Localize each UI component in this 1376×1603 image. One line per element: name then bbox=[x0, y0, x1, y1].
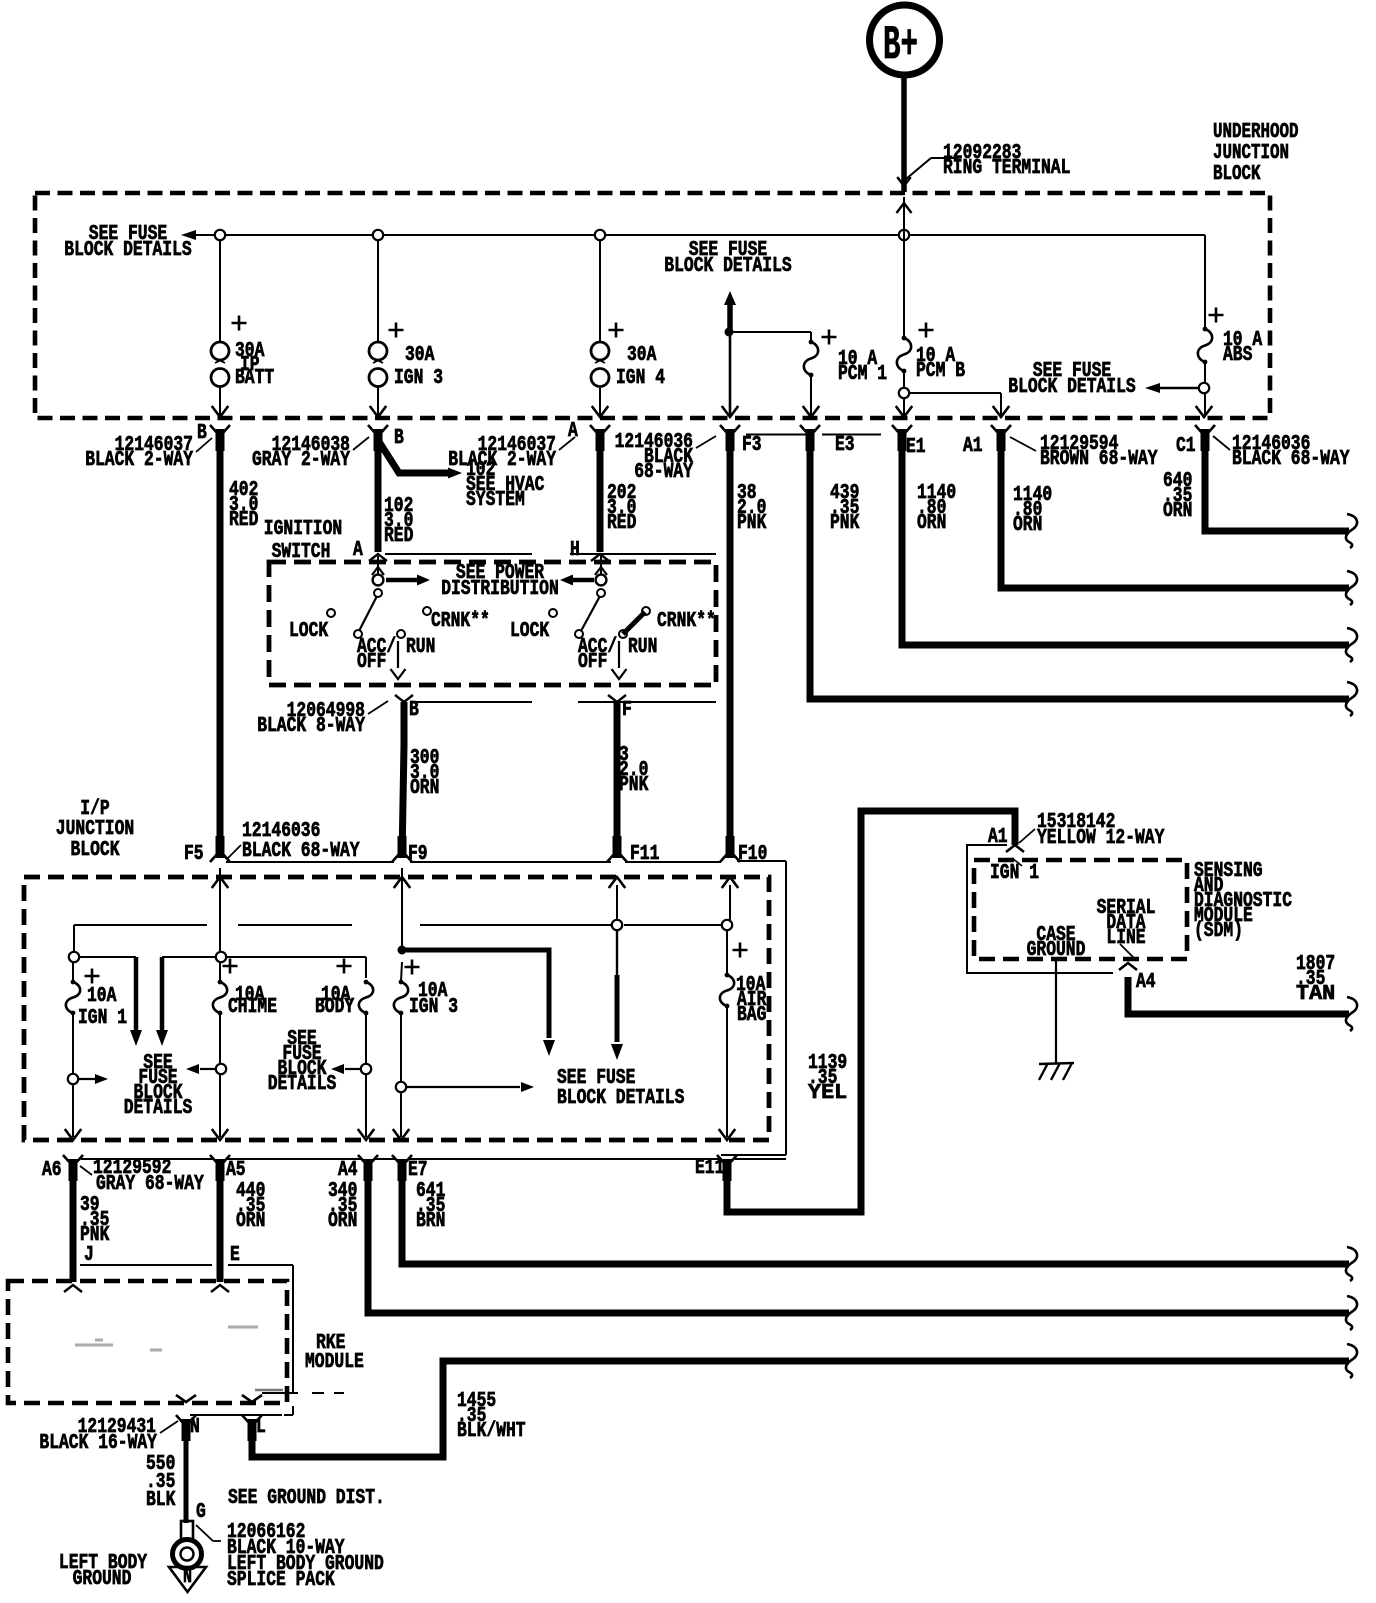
RKE dash-dot line right of pin L bbox=[262, 1392, 344, 1394]
wire: F3 node to fuse 10A PCM 1 bbox=[733, 331, 811, 333]
arrow left from ABS node to fuse block details bbox=[1160, 387, 1199, 389]
svg-text:IGN 1: IGN 1 bbox=[78, 1007, 127, 1030]
I/P internal thick branch to see-fuse details bbox=[406, 950, 549, 1038]
svg-text:JUNCTION: JUNCTION bbox=[1213, 142, 1289, 165]
svg-text:CRNK**: CRNK** bbox=[657, 610, 716, 633]
ignition switch connector face line (bottom) bbox=[410, 701, 532, 703]
svg-text:BRN: BRN bbox=[416, 1210, 445, 1233]
fuse 30A IGN 4 bbox=[609, 323, 624, 338]
connector F10 stub bbox=[720, 853, 740, 862]
contact RUN (left) bbox=[397, 630, 405, 638]
svg-text:GRAY 2-WAY: GRAY 2-WAY bbox=[252, 449, 350, 472]
svg-text:BATT: BATT bbox=[235, 367, 274, 390]
fuse 10A ABS bbox=[1209, 308, 1224, 323]
arrow up from F3 node to fuse block details bbox=[724, 291, 736, 305]
arrow right from IGN 3 node bbox=[406, 1086, 520, 1088]
chassis ground symbol bbox=[1039, 1063, 1074, 1080]
wire 439 PNK: connector E3 off page bbox=[810, 448, 1349, 699]
svg-text:BLOCK DETAILS: BLOCK DETAILS bbox=[64, 239, 191, 262]
svg-text:BLACK 2-WAY: BLACK 2-WAY bbox=[85, 449, 193, 472]
svg-text:ORN: ORN bbox=[328, 1210, 357, 1233]
svg-text:A1: A1 bbox=[963, 435, 983, 458]
battery feed terminal B+ bbox=[870, 5, 940, 75]
junction node at CHIME fuse bbox=[216, 952, 226, 962]
wire 202 RED: connector A to ignition switch pin H bbox=[597, 448, 604, 552]
wire: B+ entry down to fuse 10A PCM B bbox=[903, 197, 905, 336]
I/P junction block (dashed outline) bbox=[24, 877, 769, 1140]
svg-text:F10: F10 bbox=[738, 843, 767, 866]
ignition switch feed node (right) with arrow to power distribution bbox=[600, 556, 602, 586]
svg-text:BLOCK DETAILS: BLOCK DETAILS bbox=[557, 1087, 684, 1110]
svg-text:J: J bbox=[84, 1244, 94, 1267]
ignition switch feed node (left) with arrow to power distribution bbox=[377, 556, 379, 586]
junction node F3 branch bbox=[725, 328, 734, 337]
ring terminal 12092283 leader and label bbox=[906, 158, 931, 179]
arrow from RUN (right) to pin F bbox=[618, 641, 620, 668]
junction node on bus at IGN 4 fuse bbox=[595, 230, 605, 240]
wire 38 PNK: connector F3 to I/P junction block F10 bbox=[727, 448, 734, 858]
connector E7 stub bbox=[392, 1155, 412, 1164]
wire: AIR BAG fuse to connector E11 bbox=[726, 1006, 728, 1137]
junction node IGN 1 top bbox=[69, 952, 79, 962]
svg-text:TAN: TAN bbox=[1296, 983, 1335, 1006]
junction node below PCM B fuse bbox=[903, 371, 905, 415]
svg-text:RED: RED bbox=[229, 509, 258, 532]
contact: left feed bbox=[374, 589, 382, 597]
svg-text:N: N bbox=[190, 1416, 200, 1439]
arrow to fuse block details (left) bbox=[181, 230, 196, 240]
svg-text:ORN: ORN bbox=[236, 1210, 265, 1233]
svg-text:N: N bbox=[183, 1566, 192, 1589]
svg-text:ORN: ORN bbox=[1013, 514, 1042, 537]
svg-text:F: F bbox=[622, 699, 632, 722]
wire 102 RED branch to HVAC system bbox=[378, 440, 448, 473]
wire: F9 to IGN 3 fuse bbox=[401, 868, 403, 946]
svg-text:LINE: LINE bbox=[1106, 927, 1145, 950]
svg-text:ORN: ORN bbox=[410, 777, 439, 800]
svg-text:RED: RED bbox=[607, 512, 636, 535]
wire: bus to fuse 10A ABS bbox=[1204, 235, 1206, 327]
svg-text:F11: F11 bbox=[630, 843, 659, 866]
arrow left from CHIME node bbox=[216, 1064, 226, 1074]
svg-text:10A: 10A bbox=[87, 985, 117, 1008]
RKE pin L wedge bbox=[242, 1395, 262, 1402]
svg-text:L: L bbox=[256, 1416, 266, 1439]
contact RUN (right) bbox=[619, 630, 627, 638]
wire: PCM 1 fuse to connector E3 bbox=[810, 375, 812, 415]
svg-text:PNK: PNK bbox=[619, 774, 649, 797]
svg-text:BLACK 16-WAY: BLACK 16-WAY bbox=[39, 1432, 157, 1455]
wire 300 ORN: ignition pin B to I/P junction block F9 bbox=[401, 702, 408, 745]
svg-text:LOCK: LOCK bbox=[510, 620, 549, 643]
switch blade (left) bbox=[359, 596, 377, 631]
junction node below IGN 3 fuse bbox=[396, 1082, 406, 1092]
svg-text:BLOCK DETAILS: BLOCK DETAILS bbox=[1008, 376, 1135, 399]
junction node rail at F11 bbox=[612, 920, 622, 930]
wire 1807 TAN: SDM A4 off page bbox=[1128, 977, 1349, 1014]
wire: bus drop to fuse 30A IGN 3 bbox=[377, 240, 379, 342]
connector E3 bbox=[800, 425, 820, 434]
wire 39 PNK: A6 to RKE module pin J bbox=[70, 1180, 77, 1282]
RKE pin N wedge bbox=[176, 1395, 196, 1402]
contact CRNK (left) bbox=[423, 607, 431, 615]
connector E11 stub bbox=[717, 1155, 737, 1164]
svg-text:B: B bbox=[394, 427, 404, 450]
svg-text:BODY: BODY bbox=[315, 996, 354, 1019]
SDM connector bracket (thin outline) bbox=[967, 845, 1113, 973]
ignition switch pin H cup bbox=[591, 554, 609, 561]
wire 1455 BLK/WHT: RKE pin L off page bbox=[252, 1361, 1349, 1457]
wire 640 ORN: connector C1 off page bbox=[1205, 448, 1349, 531]
svg-text:SEE GROUND DIST.: SEE GROUND DIST. bbox=[228, 1487, 385, 1510]
svg-text:IGN 3: IGN 3 bbox=[409, 996, 458, 1019]
contact LOCK (right) bbox=[549, 609, 557, 617]
junction node at F9/IGN 3 bbox=[398, 946, 407, 955]
junction node on bus at IP BATT fuse bbox=[215, 230, 225, 240]
arrow right from IGN 1 node bbox=[68, 1074, 78, 1084]
wire: IGN 1 fuse to connector A6 bbox=[72, 962, 74, 981]
svg-text:B: B bbox=[197, 422, 207, 445]
svg-text:CHIME: CHIME bbox=[228, 996, 277, 1019]
contact ACC/OFF (right) bbox=[575, 630, 583, 638]
wire 1140 ORN: connector A1 off page bbox=[1001, 448, 1349, 588]
connector A6 stub of 12129592 GRAY 68-WAY bbox=[63, 1155, 83, 1164]
ignition switch pin F cup bbox=[608, 695, 626, 702]
fuse 10A IGN 3 bbox=[405, 960, 420, 975]
svg-text:H: H bbox=[570, 539, 580, 562]
fuse 10A PCM 1 bbox=[822, 330, 837, 345]
svg-text:OFF: OFF bbox=[578, 651, 607, 674]
svg-text:SPLICE PACK: SPLICE PACK bbox=[227, 1569, 335, 1592]
connector A1 12129594 BROWN 68-WAY bbox=[991, 425, 1011, 434]
wire 402 RED: connector B to I/P junction block F5 bbox=[217, 448, 224, 858]
fuse 10A PCM B bbox=[919, 323, 934, 338]
ignition switch connector face line (top) bbox=[385, 553, 532, 555]
wire: bus drop to fuse 30A IGN 4 bbox=[599, 240, 601, 342]
svg-text:DISTRIBUTION: DISTRIBUTION bbox=[441, 578, 559, 601]
fuse 10A AIR BAG bbox=[733, 943, 748, 958]
svg-text:IGN 3: IGN 3 bbox=[394, 367, 443, 390]
svg-text:BLACK 2-WAY: BLACK 2-WAY bbox=[448, 449, 556, 472]
connector F5 stub bbox=[210, 853, 230, 862]
RKE scan smudges bbox=[75, 1327, 258, 1350]
connector F3 of 12146036 BLACK 68-WAY bbox=[720, 425, 740, 434]
junction node rail at F10 bbox=[722, 920, 732, 930]
svg-text:ABS: ABS bbox=[1223, 344, 1252, 367]
svg-text:B+: B+ bbox=[883, 19, 918, 73]
svg-text:CRNK**: CRNK** bbox=[431, 610, 490, 633]
svg-text:A: A bbox=[353, 539, 363, 562]
svg-text:A4: A4 bbox=[338, 1159, 358, 1182]
svg-text:BLK/WHT: BLK/WHT bbox=[457, 1420, 526, 1443]
svg-text:YELLOW 12-WAY: YELLOW 12-WAY bbox=[1037, 827, 1165, 850]
svg-text:(SDM): (SDM) bbox=[1194, 920, 1243, 943]
svg-text:GROUND: GROUND bbox=[73, 1568, 132, 1591]
svg-text:DETAILS: DETAILS bbox=[268, 1073, 337, 1096]
contact: right feed bbox=[597, 589, 605, 597]
ring terminal at left body ground bbox=[181, 1521, 193, 1545]
wire: B+ ring terminal feed to underhood junction block bbox=[901, 73, 907, 192]
svg-text:F3: F3 bbox=[742, 434, 762, 457]
svg-text:BLACK 68-WAY: BLACK 68-WAY bbox=[242, 840, 360, 863]
svg-text:68-WAY: 68-WAY bbox=[634, 461, 693, 484]
svg-text:PCM 1: PCM 1 bbox=[838, 363, 887, 386]
svg-text:E: E bbox=[230, 1244, 240, 1267]
svg-text:RING TERMINAL: RING TERMINAL bbox=[943, 157, 1070, 180]
continuation squiggle wire 641 bbox=[1346, 1247, 1357, 1281]
svg-text:OFF: OFF bbox=[357, 651, 386, 674]
junction node on bus at IGN 3 fuse bbox=[373, 230, 383, 240]
svg-text:SYSTEM: SYSTEM bbox=[466, 489, 525, 512]
leader serial data line to pin A4 bbox=[1120, 944, 1134, 958]
bus wire inside underhood junction block bbox=[193, 234, 1205, 236]
svg-text:A6: A6 bbox=[42, 1159, 62, 1182]
wire: IGN 4 fuse to connector A bbox=[599, 387, 601, 415]
contact LOCK (left) bbox=[327, 609, 335, 617]
RKE module (dashed outline) bbox=[8, 1281, 287, 1403]
wire: F5 to CHIME fuse bbox=[219, 868, 221, 952]
svg-text:F5: F5 bbox=[184, 843, 204, 866]
svg-text:YEL: YEL bbox=[808, 1082, 847, 1105]
svg-text:RUN: RUN bbox=[628, 636, 657, 659]
connector A5 stub bbox=[210, 1155, 230, 1164]
wire: PCM B node to connector A1 drop bbox=[909, 392, 1001, 394]
fuse 30A IGN 3 bbox=[389, 323, 404, 338]
svg-text:BROWN 68-WAY: BROWN 68-WAY bbox=[1040, 448, 1158, 471]
RKE connector face line (top) bbox=[80, 1264, 212, 1266]
svg-text:RUN: RUN bbox=[406, 636, 435, 659]
I/P block top connector face line bbox=[226, 861, 394, 863]
wire 340 ORN: A4 off page bbox=[368, 1180, 1349, 1313]
continuation squiggle wire 1140 E1 bbox=[1346, 628, 1357, 662]
SDM pin A1 cup bbox=[1006, 845, 1024, 852]
svg-text:G: G bbox=[196, 1501, 206, 1524]
ignition switch (dashed outline) bbox=[269, 562, 716, 685]
svg-text:30A: 30A bbox=[405, 344, 435, 367]
svg-text:E7: E7 bbox=[408, 1159, 428, 1182]
svg-text:GRAY 68-WAY: GRAY 68-WAY bbox=[96, 1173, 204, 1196]
RKE connector face line (bottom) bbox=[190, 1414, 282, 1416]
svg-text:IGN 4: IGN 4 bbox=[616, 367, 665, 390]
wire: CHIME fuse to connector A5 bbox=[219, 962, 221, 981]
svg-text:GROUND: GROUND bbox=[1027, 939, 1086, 962]
svg-text:A4: A4 bbox=[1136, 971, 1156, 994]
connector B 12146037 BLACK 2-WAY bbox=[210, 425, 230, 434]
wire 3 PNK inside I/P block to see-fuse details bbox=[616, 930, 618, 975]
RKE pin E wedge bbox=[211, 1285, 229, 1292]
SDM pin A4 cup bbox=[1119, 963, 1137, 970]
wire: BODY fuse to connector A4 bbox=[365, 1013, 367, 1064]
arrow from RUN (left) to pin B bbox=[397, 641, 399, 668]
svg-text:BLACK 8-WAY: BLACK 8-WAY bbox=[257, 715, 365, 738]
continuation squiggle wire 1455 bbox=[1346, 1344, 1357, 1378]
wire: IP BATT fuse to connector B bbox=[219, 387, 221, 415]
svg-text:LOCK: LOCK bbox=[289, 620, 328, 643]
wire 641 BRN: E7 off page bbox=[402, 1180, 1349, 1264]
svg-text:IGNITION: IGNITION bbox=[264, 518, 342, 541]
SDM (dashed outline) bbox=[974, 860, 1187, 959]
fuse 10A CHIME bbox=[223, 959, 238, 974]
wire: F3 node down to connector F3 bbox=[729, 336, 732, 415]
fuse 30A IP BATT bbox=[232, 316, 247, 331]
I/P internal line: CHIME node to BODY fuse bbox=[226, 956, 366, 958]
wire 1140 ORN: connector E1 off page bbox=[902, 448, 1349, 645]
svg-text:F9: F9 bbox=[408, 843, 428, 866]
continuation squiggle wire 340 bbox=[1346, 1296, 1357, 1330]
contact CRNK (right) bbox=[642, 607, 650, 615]
svg-text:DETAILS: DETAILS bbox=[124, 1097, 193, 1120]
svg-text:BLOCK DETAILS: BLOCK DETAILS bbox=[664, 255, 791, 278]
connector E1 bbox=[892, 425, 912, 434]
RKE pin L stub bbox=[242, 1415, 262, 1424]
connector face line 12146036 (F3-E3) bbox=[746, 434, 806, 436]
svg-text:A5: A5 bbox=[226, 1159, 246, 1182]
svg-text:30A: 30A bbox=[627, 344, 657, 367]
junction node on bus at B+ feed bbox=[899, 230, 909, 240]
arrow left from BODY node bbox=[361, 1064, 371, 1074]
junction node below ABS fuse bbox=[1204, 362, 1206, 415]
connector C1 12146036 BLACK 68-WAY bbox=[1195, 425, 1215, 434]
ground splice pack triangle N bbox=[169, 1567, 206, 1592]
svg-text:BLK: BLK bbox=[146, 1489, 176, 1512]
svg-text:SWITCH: SWITCH bbox=[272, 541, 331, 564]
svg-text:RED: RED bbox=[384, 525, 413, 548]
wire 102 RED: connector B to ignition switch pin A bbox=[375, 448, 382, 552]
ignition switch pin A cup bbox=[369, 554, 387, 561]
connector A 12146037 BLACK 2-WAY bbox=[590, 425, 610, 434]
continuation squiggle wire 1807 bbox=[1346, 997, 1357, 1031]
contact ACC/OFF (left) bbox=[354, 630, 362, 638]
switch blade (right, to CRNK) bbox=[623, 612, 645, 634]
connector F9 stub bbox=[392, 853, 412, 862]
fuse 10A IGN 1 bbox=[85, 969, 100, 984]
wire 1139 YEL: E11 to SDM pin A1 bbox=[727, 811, 1015, 1212]
I/P block bottom connector face line bbox=[81, 1158, 214, 1160]
svg-text:UNDERHOOD: UNDERHOOD bbox=[1213, 121, 1299, 144]
svg-text:E3: E3 bbox=[835, 434, 855, 457]
svg-text:PNK: PNK bbox=[830, 512, 860, 535]
svg-text:ORN: ORN bbox=[917, 512, 946, 535]
wire 3 PNK: ignition pin F to I/P junction block F11 bbox=[614, 702, 621, 858]
wire: IGN 3 fuse to connector B bbox=[377, 387, 379, 415]
svg-text:ORN: ORN bbox=[1163, 500, 1192, 523]
svg-text:BLOCK: BLOCK bbox=[1213, 163, 1261, 186]
svg-text:PCM B: PCM B bbox=[916, 360, 965, 383]
underhood junction block (dashed outline) bbox=[35, 193, 1270, 418]
RKE pin J wedge bbox=[64, 1285, 82, 1292]
wire 550 BLK: RKE pin N to left body ground bbox=[184, 1438, 189, 1523]
I/P internal wire: IGN 1 feed from F11/F10 rail bbox=[73, 925, 75, 952]
svg-text:PNK: PNK bbox=[737, 512, 767, 535]
wire: bus drop to fuse 30A IP BATT bbox=[219, 240, 221, 342]
svg-text:E1: E1 bbox=[906, 436, 926, 459]
wire: IGN 3 fuse to connector E7 bbox=[401, 962, 402, 981]
fuse 10A BODY bbox=[337, 959, 352, 974]
svg-text:BAG: BAG bbox=[737, 1004, 766, 1027]
wire 440 ORN: A5 to RKE module pin E bbox=[217, 1180, 224, 1282]
I/P internal line to see-fuse arrows (left) bbox=[79, 956, 136, 958]
svg-text:BLACK 68-WAY: BLACK 68-WAY bbox=[1232, 448, 1350, 471]
RKE pin N stub bbox=[176, 1415, 196, 1424]
connector B 12146038 GRAY 2-WAY bbox=[368, 425, 388, 434]
continuation squiggle wire 1140 A1 bbox=[1346, 571, 1357, 605]
svg-text:C1: C1 bbox=[1176, 435, 1196, 458]
svg-text:IGN 1: IGN 1 bbox=[990, 862, 1039, 885]
switch blade (right) bbox=[581, 596, 600, 631]
ignition switch pin B cup bbox=[395, 695, 413, 702]
continuation squiggle wire 439 bbox=[1346, 682, 1357, 716]
svg-text:JUNCTION: JUNCTION bbox=[56, 818, 134, 841]
case ground wire bbox=[1055, 959, 1057, 1063]
svg-text:B: B bbox=[409, 699, 419, 722]
svg-text:A1: A1 bbox=[988, 826, 1008, 849]
svg-text:E11: E11 bbox=[695, 1157, 724, 1180]
connector A4 stub bbox=[358, 1155, 378, 1164]
continuation squiggle wire 640 bbox=[1346, 514, 1357, 548]
svg-text:MODULE: MODULE bbox=[305, 1351, 364, 1374]
svg-text:BLOCK: BLOCK bbox=[71, 839, 120, 862]
connector F11 stub bbox=[607, 853, 627, 862]
